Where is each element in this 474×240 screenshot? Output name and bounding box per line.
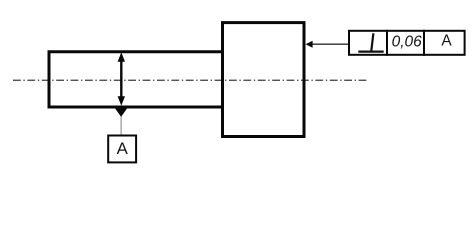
datum leader line (120, 117, 122, 136)
perpendicularity symbol (358, 33, 383, 51)
FCF leader arrowhead (306, 41, 313, 48)
small shaft outline (49, 52, 224, 107)
dimension double-arrow shaft (120, 58, 122, 100)
svg-text:A: A (117, 139, 129, 158)
svg-text:0,06: 0,06 (392, 33, 423, 50)
feature control frame (349, 31, 465, 55)
centerline (dash-dot axis) (13, 79, 368, 81)
large shaft outline (223, 23, 305, 137)
datum box A (108, 136, 136, 163)
FCF leader line (308, 43, 349, 45)
datum triangle (115, 108, 127, 117)
svg-text:A: A (441, 33, 452, 50)
FCF divider 2 (423, 30, 425, 56)
dimension arrowhead bottom (118, 96, 125, 106)
FCF divider 1 (386, 30, 388, 56)
dimension arrowhead top (118, 52, 125, 62)
